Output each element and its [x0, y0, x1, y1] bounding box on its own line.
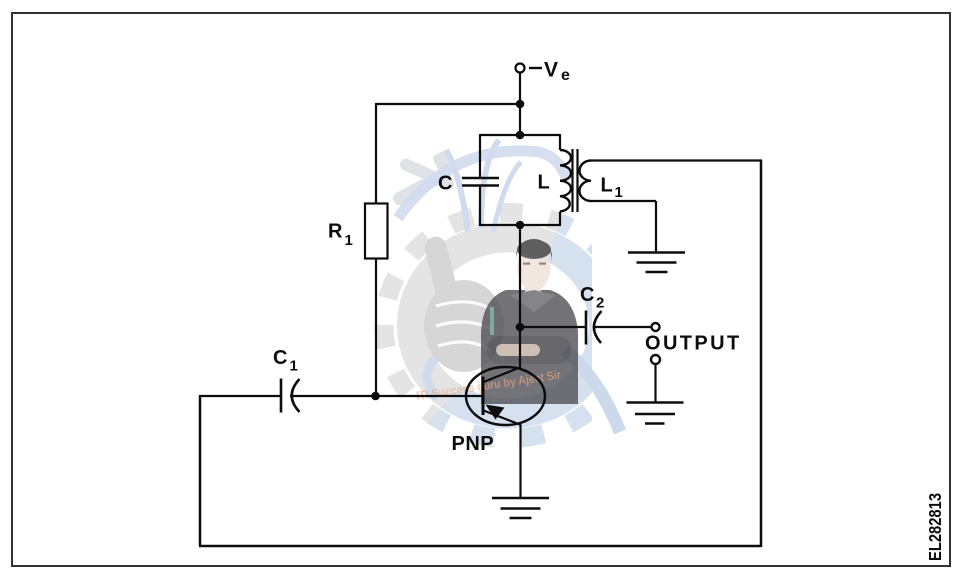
- capacitor C2: [585, 311, 588, 345]
- wire left loop down: [199, 395, 202, 546]
- svg-text:1: 1: [615, 184, 623, 201]
- transistor emitter lead: [484, 411, 522, 426]
- svg-text:R: R: [328, 221, 343, 243]
- svg-text:OUTPUT: OUTPUT: [645, 333, 742, 355]
- transistor collector lead: [484, 367, 522, 382]
- wire emitter vertical: [519, 425, 521, 499]
- transistor base bar: [482, 377, 485, 416]
- blue wing band: [565, 350, 620, 432]
- svg-text:L: L: [538, 172, 550, 194]
- inductor L primary coil: [560, 150, 571, 212]
- svg-text:1: 1: [290, 358, 298, 375]
- svg-text:C: C: [273, 347, 287, 369]
- junction node collector/C2: [516, 323, 525, 332]
- wire left vertical lower: [375, 259, 377, 397]
- tank circuit bottom side: [480, 224, 560, 226]
- ground L1: [628, 253, 685, 273]
- svg-text:EL282813: EL282813: [926, 493, 946, 561]
- wire output terminal to ground: [654, 364, 656, 403]
- transformer core: [573, 149, 578, 212]
- svg-text:V: V: [544, 59, 558, 82]
- wire bottom loop: [199, 545, 761, 548]
- wire C1 to base: [290, 395, 483, 397]
- transistor Q1 body: [466, 367, 545, 425]
- gear ring gray: [412, 238, 604, 414]
- wire collector vertical: [519, 225, 521, 367]
- ground output: [627, 403, 684, 424]
- svg-text:L: L: [601, 175, 613, 197]
- ground emitter: [492, 498, 549, 518]
- tank circuit right side segments: [559, 134, 561, 226]
- terminal output lower open circle: [651, 355, 660, 364]
- svg-text:C: C: [438, 173, 452, 195]
- junction node at top rail: [516, 100, 525, 109]
- -Ve label dash: [529, 67, 542, 69]
- junction node base/R1/C1: [371, 392, 380, 401]
- wire left vertical upper: [375, 103, 377, 204]
- capacitor C1: [280, 379, 283, 413]
- inductor L1 secondary coil: [579, 161, 591, 202]
- photo white backdrop: [592, 188, 714, 466]
- wire L1 bottom: [591, 201, 656, 253]
- blue splash: [398, 151, 567, 218]
- capacitor C plates: [462, 178, 499, 186]
- wire right loop up: [760, 161, 763, 548]
- wire C1 left: [200, 395, 281, 397]
- transistor emitter arrow: [486, 405, 505, 420]
- svg-text:2: 2: [596, 295, 604, 312]
- wire -Ve stem: [519, 73, 521, 136]
- hammer tools: [391, 150, 456, 208]
- svg-text:C: C: [580, 284, 594, 306]
- junction node tank bottom: [516, 221, 525, 230]
- tank circuit top side: [480, 134, 560, 136]
- terminal output upper open circle: [652, 323, 660, 331]
- thumb: [422, 234, 504, 372]
- wire C2 right: [595, 326, 652, 328]
- wire C2 left: [520, 326, 586, 328]
- resistor R1: [365, 204, 388, 259]
- wire L1 top to loop: [591, 159, 762, 161]
- wire top horizontal: [376, 103, 520, 105]
- person photo: [481, 239, 578, 404]
- svg-text:e: e: [561, 67, 570, 84]
- terminal -Ve open circle: [516, 64, 525, 73]
- tank circuit left side segments: [479, 134, 481, 226]
- svg-text:PNP: PNP: [452, 433, 495, 455]
- junction node tank top: [516, 131, 525, 140]
- svg-text:1: 1: [345, 232, 353, 249]
